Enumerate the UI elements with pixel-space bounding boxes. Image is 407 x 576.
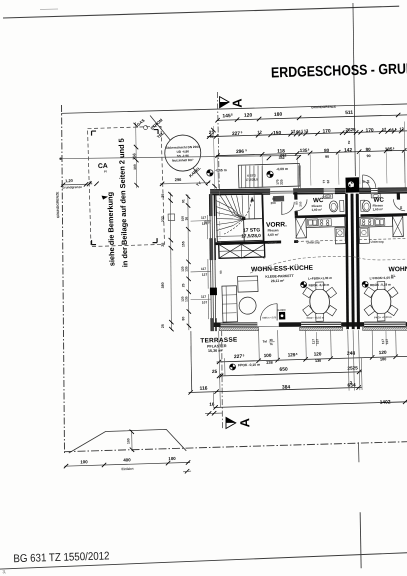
bottom dim row 1	[217, 356, 407, 362]
benchmark FPOK -0,10 m	[230, 364, 236, 370]
svg-text:100: 100	[168, 456, 176, 461]
svg-text:62: 62	[366, 180, 370, 184]
svg-text:129: 129	[288, 352, 296, 357]
stair newel post	[242, 217, 245, 220]
kitchen sink right unit	[375, 218, 385, 225]
svg-text:KAMIN: KAMIN	[278, 309, 286, 312]
utility service diagonal line	[150, 114, 208, 187]
stair east wall	[262, 195, 263, 242]
VORR south wall / stair wall	[216, 240, 282, 245]
stair tread bottom left	[216, 236, 243, 237]
bottom dim row 3	[189, 387, 362, 392]
svg-text:25: 25	[161, 243, 165, 247]
svg-text:80: 80	[365, 147, 371, 152]
svg-text:155: 155	[181, 241, 185, 247]
svg-text:650: 650	[279, 367, 288, 373]
svg-text:238: 238	[266, 361, 272, 365]
svg-text:200: 200	[271, 201, 276, 205]
section line A-A vertical dash-dot top	[216, 92, 220, 190]
kitchen counter left unit	[306, 217, 345, 228]
svg-text:130: 130	[184, 266, 188, 272]
svg-text:OBKm +2,05: OBKm +2,05	[262, 316, 277, 319]
svg-text:170: 170	[366, 128, 375, 134]
stray tick mark	[185, 469, 190, 473]
svg-text:180: 180	[274, 112, 283, 118]
svg-text:127: 127	[202, 273, 208, 277]
WC sink left unit	[324, 194, 333, 198]
left wall windows	[210, 216, 211, 238]
bottom right vertical mark	[359, 512, 361, 568]
benchmark at chimney	[348, 182, 353, 187]
WC south wall left unit	[295, 214, 346, 218]
svg-text:Grundgrenze: Grundgrenze	[62, 185, 82, 190]
svg-text:142: 142	[344, 147, 353, 153]
kitchen side counter left unit	[335, 227, 345, 244]
left outer wall	[209, 194, 213, 216]
section line through stair	[219, 191, 221, 243]
svg-text:76: 76	[270, 342, 274, 346]
svg-text:GRUNDGRENZE: GRUNDGRENZE	[311, 105, 336, 110]
svg-text:77: 77	[362, 180, 366, 184]
svg-text:242: 242	[280, 152, 288, 157]
Unterzug dashed beam left unit	[296, 240, 345, 242]
section line A-A vertical dash-dot bottom	[219, 330, 224, 428]
Grundgrenze horizontal boundary line	[61, 103, 407, 114]
svg-text:296: 296	[175, 177, 183, 182]
kitchen tall unit with X right unit	[392, 216, 403, 237]
extension lines below building	[218, 331, 221, 407]
svg-text:107: 107	[202, 300, 208, 304]
kitchen tall unit with X left unit	[296, 217, 307, 238]
svg-text:15,36 m²: 15,36 m²	[208, 349, 224, 353]
svg-text:25: 25	[181, 283, 185, 287]
party wall double lines	[342, 194, 351, 330]
kitchen counter right unit	[359, 216, 393, 227]
left vertical Grundgrenze boundary dash-dot	[54, 105, 72, 453]
svg-text:80: 80	[399, 205, 403, 209]
driveway dim row	[64, 462, 190, 466]
svg-text:117: 117	[201, 267, 206, 271]
bottom wall window left unit	[301, 321, 341, 323]
window sill hatch below bottom wall left	[219, 326, 259, 332]
svg-text:A: A	[229, 98, 244, 108]
svg-text:150: 150	[273, 130, 282, 136]
svg-text:90: 90	[219, 270, 223, 274]
svg-text:WOHN: WOHN	[389, 266, 407, 274]
svg-text:1,60 m²: 1,60 m²	[312, 208, 322, 212]
staircase winder left unit	[216, 194, 263, 242]
svg-text:232: 232	[161, 216, 165, 222]
chimney block at party wall	[345, 177, 359, 193]
horizontal line through circle	[61, 152, 302, 163]
svg-text:80: 80	[181, 317, 185, 321]
dimension row C line	[216, 150, 407, 156]
entrance porch outside top wall	[238, 163, 300, 187]
benchmark symbol -0,09 m	[267, 171, 274, 178]
svg-text:25: 25	[161, 194, 165, 198]
dim 117 127 horizontal left top	[191, 219, 212, 222]
svg-text:Nutzinhalt 9m³: Nutzinhalt 9m³	[172, 158, 193, 163]
kitchen side counter right unit	[359, 227, 369, 244]
left wall pier black	[210, 287, 217, 295]
svg-text:180: 180	[380, 357, 386, 361]
vertical chain line at 756	[135, 122, 138, 188]
svg-text:Unterzug: Unterzug	[307, 240, 320, 244]
stair treads top	[220, 195, 233, 215]
entrance door arcs right unit	[363, 175, 376, 189]
stair walking line with arrow	[223, 197, 253, 234]
svg-text:90: 90	[367, 154, 371, 158]
bottom wall terrace door glazing left unit	[220, 321, 257, 327]
svg-text:120: 120	[314, 351, 322, 356]
svg-text:91: 91	[181, 199, 185, 203]
svg-text:25: 25	[212, 369, 218, 374]
coffee table left unit	[239, 297, 256, 314]
svg-text:25: 25	[210, 134, 214, 138]
svg-text:16: 16	[209, 402, 215, 407]
dim 1,20 Grundgrenze	[61, 183, 88, 186]
svg-text:62: 62	[326, 180, 330, 184]
drain square symbol	[168, 214, 175, 221]
Kamin black square left unit	[279, 312, 285, 320]
svg-text:107: 107	[385, 339, 389, 345]
vertical dim chain 1 left of building	[167, 193, 174, 331]
svg-text:380: 380	[161, 282, 165, 288]
svg-text:120: 120	[244, 113, 253, 119]
svg-text:120: 120	[379, 350, 387, 355]
extension lines above building	[217, 157, 218, 188]
top wall WC windows	[324, 188, 335, 191]
bottom wall door opening left unit	[257, 326, 279, 327]
svg-text:145: 145	[222, 113, 231, 119]
kitchen sink left unit	[308, 219, 318, 226]
dim 117 107 horizontal left lower	[191, 298, 212, 301]
right margin tick near street line	[357, 442, 360, 462]
WC door arc left unit	[295, 199, 307, 211]
terrace door arc left unit	[260, 304, 278, 321]
svg-text:-0,09 m: -0,09 m	[276, 167, 288, 171]
svg-text:1,20: 1,20	[65, 178, 74, 183]
dim 117 127 horizontal left	[191, 270, 212, 273]
svg-text:1,60 m²: 1,60 m²	[373, 207, 383, 211]
carport corner brackets	[92, 130, 97, 132]
svg-text:25: 25	[161, 324, 165, 328]
svg-text:PKO+ +0,03 m: PKO+ +0,03 m	[307, 315, 325, 320]
svg-text:117: 117	[201, 295, 206, 299]
svg-text:227: 227	[234, 354, 243, 360]
svg-text:227: 227	[232, 131, 241, 137]
svg-text:77: 77	[208, 220, 212, 224]
svg-text:80: 80	[324, 148, 330, 153]
carport dashed rectangle	[88, 126, 165, 246]
svg-text:400: 400	[123, 457, 131, 462]
top right vertical axis line	[350, 3, 358, 176]
svg-text:3,: 3,	[2, 569, 6, 574]
svg-text:17,5/28,0: 17,5/28,0	[241, 233, 261, 239]
svg-text:511: 511	[345, 110, 353, 116]
porch right edge extension lines	[298, 165, 299, 188]
vertical dim chain 2 left of building	[185, 195, 192, 331]
svg-text:30: 30	[184, 217, 188, 221]
svg-text:2/89/56: 2/89/56	[268, 241, 278, 245]
terrace outline left edge	[190, 331, 193, 391]
svg-text:A: A	[237, 417, 252, 427]
svg-text:100: 100	[264, 353, 272, 358]
benchmark symbol -0,05 m	[207, 170, 214, 177]
kitchen stove left unit	[319, 219, 332, 226]
svg-text:17,5/28,0: 17,5/28,0	[245, 177, 258, 181]
svg-text:Tel: Tel	[263, 340, 268, 344]
svg-text:L=FBOK+1,00 m: L=FBOK+1,00 m	[370, 276, 394, 281]
driveway trapezoid Einfahrt	[68, 429, 186, 454]
bottom dim row 2	[219, 372, 362, 376]
revision dashed wavy line	[250, 254, 406, 273]
cross-braced area below stairs	[219, 243, 265, 258]
section marker A bottom	[226, 417, 236, 428]
section marker A top	[219, 96, 229, 107]
armchair left unit	[238, 276, 258, 292]
sofa left unit	[222, 286, 238, 322]
svg-text:130: 130	[315, 359, 321, 363]
trapezoid height dim 100	[130, 430, 133, 451]
svg-text:170: 170	[323, 128, 332, 134]
svg-text:4,60 m²: 4,60 m²	[268, 233, 279, 237]
svg-text:100: 100	[126, 438, 130, 444]
scan speck top left	[40, 8, 58, 11]
svg-text:116: 116	[200, 386, 208, 392]
toilet left unit	[340, 200, 344, 211]
svg-text:135: 135	[300, 148, 308, 153]
svg-text:90: 90	[325, 155, 329, 159]
svg-text:384: 384	[282, 384, 291, 390]
stair treads left	[216, 200, 233, 209]
building top wall	[210, 188, 270, 195]
benchmark and labels right unit table	[362, 281, 368, 287]
svg-text:1402: 1402	[380, 399, 391, 405]
WC door arc right unit	[393, 199, 405, 211]
svg-text:FPOK -0,10 m: FPOK -0,10 m	[238, 363, 260, 368]
svg-text:NO+0,5: NO+0,5	[322, 196, 331, 199]
svg-text:RBOK -0,19 m: RBOK -0,19 m	[370, 283, 391, 288]
benchmark and labels left unit table	[301, 282, 307, 288]
VORR door arc to WC zone	[281, 202, 294, 214]
svg-text:200: 200	[298, 201, 302, 206]
dining table right unit	[371, 288, 391, 314]
svg-text:135: 135	[385, 147, 393, 152]
dim 296 left	[160, 182, 210, 184]
dimension row A line	[217, 115, 407, 121]
svg-text:28,11 m²: 28,11 m²	[271, 279, 285, 283]
svg-text:GRUNDGRENZE: GRUNDGRENZE	[55, 191, 60, 218]
svg-text:2525: 2525	[347, 365, 358, 370]
svg-text:Unterzug: Unterzug	[371, 240, 384, 244]
svg-text:2625: 2625	[345, 127, 356, 132]
svg-text:100: 100	[80, 459, 88, 464]
WC sink right unit	[371, 194, 380, 198]
svg-text:296: 296	[236, 149, 245, 155]
street boundary dash-dot line bottom	[64, 442, 407, 452]
svg-text:117: 117	[201, 216, 206, 220]
svg-text:RBOK -0,19 m: RBOK -0,19 m	[309, 283, 330, 288]
Unterzug dashed beam right unit	[359, 238, 407, 240]
svg-text:PKO+ +0,03 m: PKO+ +0,03 m	[374, 315, 392, 320]
WC west wall right unit (door side)	[397, 193, 400, 200]
svg-text:107: 107	[315, 339, 319, 345]
svg-text:220: 220	[280, 179, 284, 185]
Sickerschacht circle	[164, 135, 201, 172]
svg-text:Pl: Pl	[104, 169, 107, 173]
stair landing edge lines	[244, 218, 262, 221]
bottom dim row 4	[214, 402, 407, 408]
bottom wall	[213, 322, 220, 327]
dimension row B line	[207, 131, 407, 137]
bottom frame line	[0, 553, 407, 569]
entrance door mat left unit	[273, 196, 284, 202]
svg-text:L=FBOK+1,00 m: L=FBOK+1,00 m	[308, 276, 332, 281]
kitchen stove right unit	[361, 218, 374, 225]
svg-text:Einfahrt: Einfahrt	[121, 467, 134, 471]
top border line	[3, 6, 399, 18]
toilet right unit	[361, 200, 365, 211]
extension line right edge tall	[403, 122, 406, 188]
dining table left unit	[309, 289, 329, 315]
svg-text:-0,05 m: -0,05 m	[215, 168, 227, 172]
small arrow marker	[102, 195, 109, 199]
svg-text:130: 130	[184, 296, 188, 302]
top wall entrance door opening left unit	[270, 191, 293, 192]
WC south wall right unit	[360, 213, 407, 217]
WC west wall / VORR east wall left unit	[294, 192, 297, 199]
